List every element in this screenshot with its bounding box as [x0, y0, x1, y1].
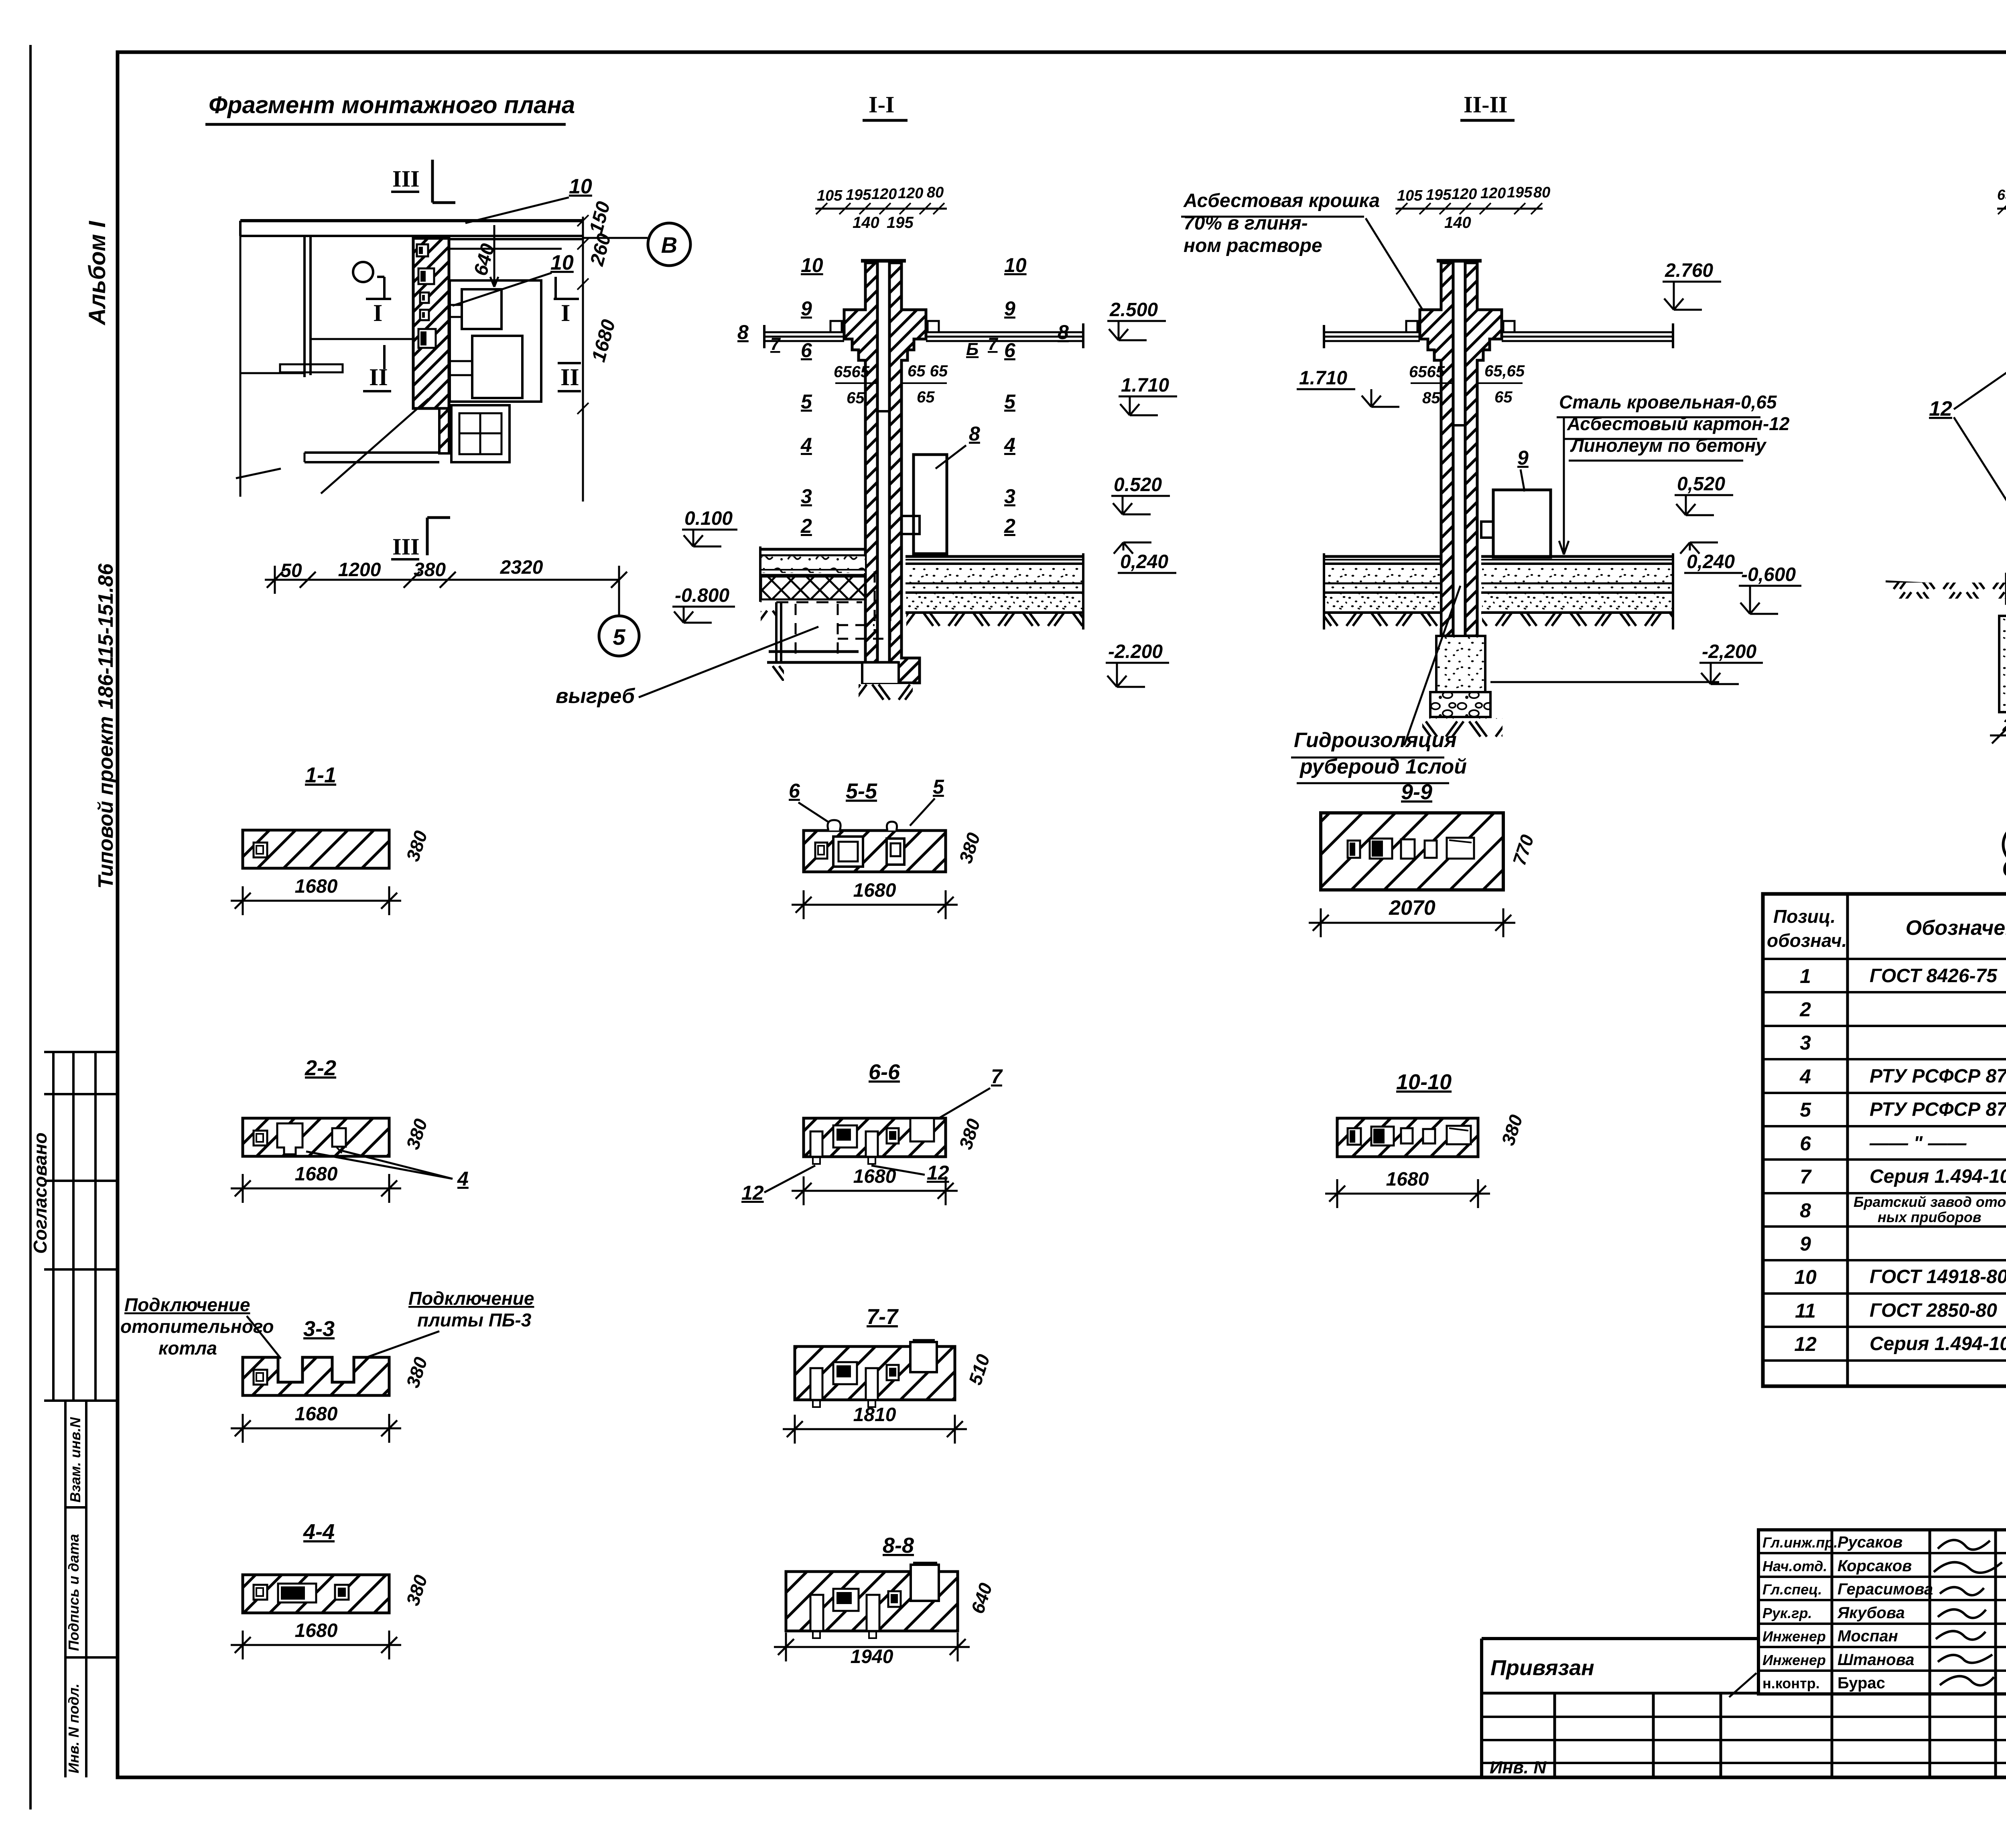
svg-text:8: 8	[969, 422, 980, 445]
svg-text:Моспан: Моспан	[1837, 1627, 1898, 1645]
svg-text:2070: 2070	[1389, 896, 1435, 920]
svg-text:ГОСТ 8426-75: ГОСТ 8426-75	[1870, 965, 1998, 987]
svg-text:1.710: 1.710	[1121, 375, 1169, 396]
svg-text:6565: 6565	[834, 363, 870, 381]
left margin: approval box grid	[44, 1051, 118, 1053]
plan: left boundary	[240, 236, 242, 497]
svg-text:Гл.инж.пр.: Гл.инж.пр.	[1762, 1534, 1837, 1551]
svg-text:III: III	[392, 534, 420, 560]
svg-text:80: 80	[1533, 184, 1550, 201]
section III-III top dim chain	[1997, 208, 2006, 210]
title block: signatures squiggles	[1938, 1540, 1990, 1549]
svg-text:Инв. N подл.: Инв. N подл.	[65, 1684, 82, 1773]
svg-text:Позиц.: Позиц.	[1773, 906, 1835, 927]
svg-text:140: 140	[1444, 214, 1471, 232]
svg-text:Корсаков: Корсаков	[1837, 1557, 1912, 1575]
svg-text:2.500: 2.500	[1109, 299, 1158, 321]
left margin: lower cells	[64, 1401, 67, 1777]
svg-text:65 65: 65 65	[908, 362, 948, 380]
section III-III bottom dim chain	[1990, 735, 2006, 737]
svg-text:Серия 1.494-10: Серия 1.494-10	[1870, 1166, 2006, 1187]
plan: counter + sink	[240, 372, 305, 374]
svg-text:0,240: 0,240	[1120, 551, 1168, 573]
svg-text:ГОСТ 2850-80: ГОСТ 2850-80	[1870, 1300, 1997, 1321]
svg-text:Гл.спец.: Гл.спец.	[1762, 1581, 1822, 1598]
svg-text:70% в глиня-: 70% в глиня-	[1184, 213, 1308, 234]
plan: appliance below stack	[451, 405, 510, 462]
svg-text:2: 2	[1004, 515, 1015, 537]
svg-text:рубероид 1слой: рубероид 1слой	[1299, 755, 1467, 778]
section II-II foundation pedestal	[1436, 636, 1485, 692]
section 10-10 bar	[1337, 1118, 1478, 1157]
specification table	[1763, 894, 2006, 1386]
svg-text:186-115-151.86: 186-115-151.86	[94, 563, 118, 709]
svg-text:65,65: 65,65	[1484, 362, 1525, 380]
svg-text:10: 10	[550, 251, 574, 274]
svg-text:Русаков: Русаков	[1837, 1533, 1902, 1551]
section I-I stack base below pit	[862, 662, 899, 684]
svg-text:85: 85	[1422, 389, 1440, 407]
plan: flue openings in stack	[417, 244, 428, 256]
section 2-2 bar	[243, 1118, 389, 1156]
title block: привязан strip	[1482, 1637, 1758, 1640]
section 4-4 bar	[243, 1575, 389, 1613]
svg-text:Фрагмент монтажного плана: Фрагмент монтажного плана	[209, 91, 575, 118]
svg-text:195: 195	[846, 187, 871, 203]
svg-text:Асбестовая крошка: Асбестовая крошка	[1183, 190, 1380, 211]
svg-text:0.100: 0.100	[684, 508, 733, 529]
section I-I roof band	[764, 331, 844, 333]
section I-I chimney stack walls (hatched)	[844, 263, 877, 662]
svg-text:Рук.гр.: Рук.гр.	[1762, 1605, 1812, 1621]
svg-text:0,520: 0,520	[1677, 473, 1725, 495]
svg-text:4: 4	[1799, 1065, 1811, 1088]
svg-text:Привязан: Привязан	[1490, 1656, 1594, 1680]
svg-text:Согласовано: Согласовано	[30, 1133, 51, 1254]
svg-text:50: 50	[280, 560, 302, 581]
section II-II chimney stack walls	[1420, 263, 1453, 636]
svg-text:ном растворе: ном растворе	[1184, 235, 1322, 256]
svg-text:1680: 1680	[295, 876, 338, 897]
svg-text:4: 4	[457, 1168, 469, 1190]
svg-text:В: В	[661, 232, 677, 258]
svg-text:5-5: 5-5	[846, 779, 877, 803]
section II-II roof band	[1324, 331, 1420, 333]
svg-text:Сталь кровельная-0,65: Сталь кровельная-0,65	[1559, 392, 1777, 412]
svg-text:10-10: 10-10	[1396, 1070, 1452, 1094]
svg-text:10: 10	[801, 254, 823, 276]
plan: lower room wall	[305, 451, 439, 454]
section III-III axis circle B	[2003, 824, 2006, 865]
svg-text:Асбестовый картон-12: Асбестовый картон-12	[1567, 413, 1790, 434]
plan: interior wall left	[303, 236, 306, 377]
svg-text:выгреб: выгреб	[556, 684, 636, 708]
svg-text:1680: 1680	[853, 1166, 896, 1187]
svg-text:плиты ПБ-3: плиты ПБ-3	[417, 1310, 532, 1330]
svg-text:Подключение: Подключение	[124, 1294, 250, 1315]
svg-text:котла: котла	[158, 1338, 217, 1359]
svg-text:8: 8	[737, 321, 749, 343]
svg-text:РТУ РСФСР 877-68: РТУ РСФСР 877-68	[1870, 1066, 2006, 1087]
svg-text:I-I: I-I	[869, 91, 894, 118]
svg-text:9: 9	[1004, 297, 1015, 320]
plan: bottom dim chain 50,1200,380,2320	[265, 579, 619, 581]
section 5-5 bar	[804, 831, 946, 872]
svg-text:3: 3	[801, 485, 812, 508]
svg-text:5: 5	[613, 624, 625, 650]
svg-text:-2,200: -2,200	[1702, 641, 1756, 662]
svg-text:I: I	[561, 300, 570, 326]
svg-text:0.520: 0.520	[1114, 474, 1162, 496]
svg-text:7: 7	[770, 334, 781, 354]
svg-text:4-4: 4-4	[303, 1520, 335, 1544]
section 9-9 bar	[1321, 813, 1503, 890]
svg-text:2-2: 2-2	[305, 1056, 336, 1080]
svg-text:3-3: 3-3	[303, 1317, 335, 1341]
section II-II top dim chain	[1395, 208, 1543, 210]
svg-text:2.760: 2.760	[1665, 260, 1713, 281]
svg-text:отопительного: отопительного	[120, 1316, 274, 1337]
svg-text:Б: Б	[966, 339, 979, 359]
svg-text:Якубова: Якубова	[1837, 1604, 1905, 1622]
svg-text:12: 12	[1929, 397, 1952, 420]
svg-text:1680: 1680	[853, 880, 896, 901]
svg-text:12: 12	[1794, 1333, 1817, 1355]
svg-text:2320: 2320	[500, 557, 543, 578]
svg-text:10: 10	[569, 175, 592, 198]
svg-text:11: 11	[1795, 1300, 1816, 1322]
section I-I soil left edge	[761, 601, 778, 622]
plan: chimney stack (hatched)	[413, 238, 449, 408]
svg-text:7: 7	[991, 1065, 1003, 1088]
svg-text:2: 2	[800, 515, 812, 537]
svg-text:8-8: 8-8	[883, 1533, 914, 1558]
svg-text:65: 65	[1997, 187, 2006, 203]
page outer trim line (left)	[29, 45, 32, 1809]
title block: signatures table	[1758, 1530, 2006, 1694]
svg-text:ных приборов: ных приборов	[1878, 1209, 1982, 1225]
plan: right witness line + dims 150,260,1680	[582, 217, 584, 502]
svg-text:120: 120	[898, 185, 923, 202]
section II-II floor left	[1324, 555, 1441, 558]
svg-text:Штанова: Штанова	[1837, 1651, 1914, 1669]
svg-text:5: 5	[933, 776, 944, 798]
svg-text:1.710: 1.710	[1299, 368, 1347, 389]
svg-text:Подключение: Подключение	[408, 1288, 534, 1309]
svg-text:8: 8	[1800, 1199, 1811, 1222]
section I-I pit bottom lines	[769, 650, 859, 653]
svg-text:9: 9	[1800, 1233, 1811, 1255]
svg-text:6: 6	[1800, 1132, 1811, 1155]
svg-text:195: 195	[1426, 187, 1452, 203]
svg-text:-0.800: -0.800	[675, 585, 729, 606]
svg-text:65: 65	[1494, 388, 1513, 406]
svg-text:3: 3	[1800, 1032, 1811, 1054]
svg-text:4: 4	[800, 434, 812, 456]
title block: lower-left grid	[1482, 1716, 2006, 1718]
svg-text:10: 10	[1004, 254, 1027, 276]
svg-text:II-II: II-II	[1464, 91, 1508, 118]
svg-text:9: 9	[1517, 447, 1529, 469]
svg-text:7: 7	[988, 334, 999, 354]
svg-text:6: 6	[789, 780, 800, 802]
svg-text:обознач.: обознач.	[1767, 930, 1847, 951]
svg-text:280: 280	[2002, 715, 2006, 735]
svg-text:7-7: 7-7	[867, 1305, 899, 1329]
svg-text:-2.200: -2.200	[1108, 641, 1163, 662]
section 3-3 bar	[243, 1357, 389, 1395]
svg-text:н.контр.: н.контр.	[1762, 1675, 1820, 1692]
plan: leader 1	[236, 469, 281, 478]
svg-text:Обозначение: Обозначение	[1906, 916, 2006, 940]
svg-text:Нач.отд.: Нач.отд.	[1762, 1558, 1827, 1574]
svg-text:Спецификация на 1 стояк: Спецификация на 1 стояк	[2002, 855, 2006, 882]
svg-text:120: 120	[871, 186, 897, 203]
svg-text:1680: 1680	[1386, 1169, 1429, 1190]
svg-text:6: 6	[801, 339, 812, 361]
svg-text:120: 120	[1452, 186, 1477, 203]
svg-text:1810: 1810	[853, 1404, 896, 1426]
svg-text:II: II	[560, 364, 579, 390]
svg-text:Серия 1.494-10: Серия 1.494-10	[1870, 1333, 2006, 1355]
svg-text:140: 140	[853, 214, 879, 232]
svg-text:Инженер: Инженер	[1762, 1628, 1826, 1645]
plan: stove group right of stack	[450, 280, 541, 402]
section 1-1 bar	[243, 830, 389, 868]
svg-text:1200: 1200	[338, 559, 381, 581]
svg-text:80: 80	[927, 184, 944, 201]
section III-III ground left	[1886, 581, 2006, 588]
svg-text:3: 3	[1004, 485, 1015, 508]
svg-text:1-1: 1-1	[305, 763, 336, 787]
plan: wall right of stack	[449, 238, 583, 240]
svg-text:Инв. N: Инв. N	[1490, 1758, 1547, 1777]
svg-text:8: 8	[1058, 321, 1069, 343]
svg-text:Альбом I: Альбом I	[84, 220, 110, 326]
svg-text:Типовой проект: Типовой проект	[94, 716, 118, 889]
svg-text:5: 5	[801, 390, 812, 413]
svg-text:195: 195	[1507, 184, 1533, 201]
svg-text:I: I	[373, 300, 382, 326]
section I-I top dim chain	[815, 208, 947, 210]
svg-text:1680: 1680	[295, 1620, 338, 1641]
svg-text:7: 7	[1800, 1166, 1812, 1188]
section 8-8 bar	[786, 1572, 958, 1631]
svg-text:6565: 6565	[1409, 363, 1445, 381]
section I-I cesspool (выгреб)	[776, 601, 862, 603]
svg-text:Братский завод отопитель-: Братский завод отопитель-	[1854, 1194, 2006, 1210]
svg-text:Бурас: Бурас	[1837, 1674, 1885, 1692]
svg-text:105: 105	[1397, 187, 1423, 204]
svg-text:380: 380	[414, 559, 446, 581]
svg-text:9-9: 9-9	[1401, 780, 1432, 804]
section 7-7 bar	[795, 1346, 955, 1400]
section I-I boiler (pos.8)	[914, 455, 947, 554]
svg-text:1940: 1940	[851, 1646, 893, 1667]
svg-text:-0,600: -0,600	[1741, 564, 1796, 585]
svg-text:Инженер: Инженер	[1762, 1652, 1826, 1668]
section 6-6 bar	[804, 1118, 946, 1157]
svg-text:III: III	[392, 166, 420, 192]
svg-text:6: 6	[1004, 339, 1016, 361]
svg-text:Взам. инв.N: Взам. инв.N	[67, 1417, 83, 1503]
svg-text:Гидроизоляция: Гидроизоляция	[1294, 729, 1457, 752]
svg-text:10: 10	[1794, 1266, 1817, 1288]
svg-text:—— " ——: —— " ——	[1869, 1133, 1967, 1154]
svg-text:1: 1	[1800, 965, 1811, 987]
plan: axis circle B	[583, 237, 648, 239]
svg-text:ГОСТ 14918-80: ГОСТ 14918-80	[1870, 1266, 2006, 1288]
section II-II plate ПБ-3 (pos.9)	[1493, 490, 1551, 557]
svg-text:РТУ РСФСР 875-68: РТУ РСФСР 875-68	[1870, 1099, 2006, 1120]
section I-I floor left	[760, 548, 865, 551]
svg-text:Линолеум по бетону: Линолеум по бетону	[1570, 435, 1767, 456]
plan: top exterior wall	[240, 219, 583, 222]
plan: leader line to stack	[321, 399, 428, 493]
svg-text:0,240: 0,240	[1687, 551, 1735, 573]
svg-text:12: 12	[741, 1182, 764, 1204]
svg-text:1680: 1680	[295, 1164, 338, 1185]
svg-text:195: 195	[887, 214, 914, 232]
svg-text:6-6: 6-6	[869, 1060, 900, 1084]
section I-I floor right	[906, 555, 1083, 558]
svg-text:9: 9	[801, 297, 812, 320]
svg-text:2: 2	[1799, 998, 1811, 1021]
svg-text:65: 65	[917, 388, 935, 406]
svg-text:5: 5	[1800, 1099, 1811, 1121]
svg-text:Герасимова: Герасимова	[1837, 1580, 1933, 1598]
svg-text:Подпись и дата: Подпись и дата	[65, 1534, 82, 1651]
plan: axis circle 5	[618, 580, 620, 615]
svg-text:4: 4	[1004, 434, 1015, 456]
svg-text:1680: 1680	[295, 1403, 338, 1425]
section III-III left footing	[1999, 616, 2006, 712]
section II-II floor right	[1481, 555, 1673, 558]
svg-text:5: 5	[1004, 390, 1016, 413]
svg-text:105: 105	[817, 187, 843, 204]
svg-text:65: 65	[847, 389, 865, 407]
svg-text:120: 120	[1480, 185, 1506, 202]
